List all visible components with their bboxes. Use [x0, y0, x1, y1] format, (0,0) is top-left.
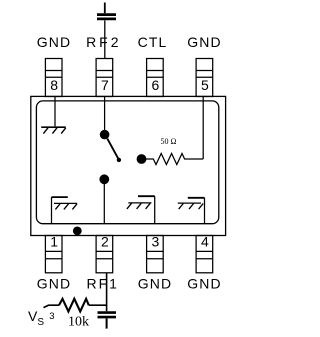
svg-text:GND: GND — [37, 34, 71, 50]
ground (chassis, pin 4) — [178, 198, 205, 224]
svg-text:CTL: CTL — [138, 34, 168, 50]
svg-text:GND: GND — [187, 34, 221, 50]
pin 5 box — [196, 59, 213, 97]
wire RF1 node to pin 2 — [103, 179, 105, 223]
svg-text:3: 3 — [49, 311, 54, 322]
pin 8 box — [45, 59, 62, 97]
pin 7 box — [96, 59, 113, 97]
svg-text:5: 5 — [201, 77, 209, 93]
wire cap C1 to pin 7 — [104, 20, 106, 58]
svg-text:2: 2 — [101, 233, 109, 249]
svg-text:RF1: RF1 — [86, 275, 118, 291]
node RF1 — [99, 174, 109, 184]
pin 4 box — [196, 233, 213, 272]
svg-text:4: 4 — [201, 233, 209, 249]
ground (chassis, pin 3) — [127, 196, 155, 224]
pin 3 box — [147, 233, 164, 272]
wire pin 2 (RF1) down to bias network — [106, 273, 108, 311]
svg-text:50 Ω: 50 Ω — [161, 137, 177, 146]
node 50 ohm terminal — [137, 154, 147, 164]
wire resistor to RF1 line — [89, 304, 107, 306]
IC die outline (inner rounded) — [36, 101, 218, 224]
pin 1 box — [45, 233, 62, 272]
svg-text:8: 8 — [50, 77, 58, 93]
svg-text:GND: GND — [37, 275, 71, 291]
pin 1 indicator dot — [73, 227, 82, 236]
wire pin 8 to ground — [54, 96, 56, 126]
svg-text:6: 6 — [152, 77, 160, 93]
svg-text:10k: 10k — [68, 314, 89, 329]
switch arm SW1 — [107, 139, 118, 160]
resistor R1 50 ohm — [146, 154, 203, 165]
svg-text:RF2: RF2 — [86, 34, 121, 50]
ground (chassis, pin 1) — [52, 197, 78, 224]
svg-text:7: 7 — [101, 77, 109, 93]
node RF2 (switch pole) — [100, 130, 110, 140]
svg-text:GND: GND — [138, 275, 172, 291]
resistor R2 10k — [59, 299, 89, 312]
wire 50 ohm to pin 5 — [202, 97, 204, 159]
IC package outline U1 (outer) — [31, 96, 226, 235]
pin 6 box — [147, 59, 164, 97]
svg-text:GND: GND — [187, 275, 221, 291]
ground (chassis, pin 8) — [41, 127, 66, 133]
pin 2 box — [96, 233, 113, 272]
wire pin 7 (RF2) to switch pole — [104, 96, 106, 132]
capacitor C1 (DC block on RF2, top) — [97, 3, 116, 19]
svg-text:1: 1 — [50, 233, 58, 249]
capacitor C2 (RF1 to ground, bottom) — [98, 313, 117, 329]
svg-text:3: 3 — [152, 233, 160, 249]
wire VS to resistor — [44, 305, 60, 307]
